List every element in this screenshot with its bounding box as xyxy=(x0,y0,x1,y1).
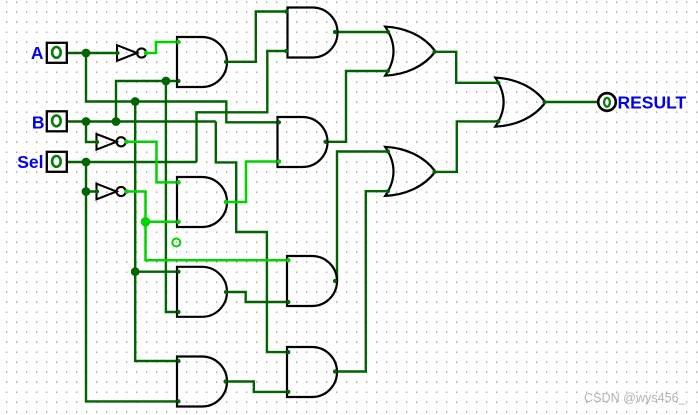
wire net Sel: vertical trunk to AND8 bottom input xyxy=(86,192,177,402)
wire OR3 output to pin RESULT xyxy=(545,101,598,103)
junction node at (86,162) xyxy=(82,158,91,167)
or-gate OR1 xyxy=(385,27,435,76)
and-gate AND2 xyxy=(288,8,338,58)
junction node at (135.2,271.7) xyxy=(131,267,140,276)
wire OR2 output to OR3 bottom input xyxy=(435,121,498,171)
wire net B: stub to NOT2 input xyxy=(86,122,97,143)
wire AND7 output to OR2 top input xyxy=(335,152,389,282)
wire AND2 output to OR1 top input xyxy=(335,31,389,33)
svg-text:CSDN @wys456_: CSDN @wys456_ xyxy=(584,391,687,405)
wire AND4 output to OR1 bottom input xyxy=(326,71,389,142)
wire OR1 output to OR3 top input xyxy=(435,52,498,83)
unconnected wire-end indicator xyxy=(172,239,180,247)
wire net Sel: pin Sel horizontal run xyxy=(67,161,197,163)
junction node at (86,53) xyxy=(82,49,91,58)
inverter U2 (B&#39;) xyxy=(97,134,126,150)
svg-text:A: A xyxy=(31,43,44,63)
svg-text:Sel: Sel xyxy=(17,152,43,172)
wire AND9 output to OR2 bottom input xyxy=(335,191,389,371)
and-gate AND8 xyxy=(177,357,227,407)
wire net B: pin B horizontal run xyxy=(67,120,216,122)
input pin B xyxy=(47,111,67,131)
and-gate AND4 xyxy=(278,117,328,167)
and-gate AND5 xyxy=(177,177,227,227)
wire net /B: NOT2 output to AND5 top input xyxy=(126,142,177,183)
junction node at (165.9,81) xyxy=(162,77,171,86)
input pin Sel xyxy=(47,152,67,172)
wire net B: up to AND1 bottom input xyxy=(116,81,177,122)
input pin A xyxy=(47,43,67,63)
wire net B: staircase to AND9 top input xyxy=(216,122,287,353)
output pin RESULT xyxy=(598,93,616,111)
and-gate AND6 xyxy=(177,267,227,317)
junction node at (86,121.5) xyxy=(82,117,91,126)
junction node at (135.2,101.5) xyxy=(131,97,140,106)
inverter U3 (Sel&#39;) xyxy=(97,184,126,200)
wire AND5 output to AND4 bottom input xyxy=(227,162,278,203)
inverter U1 (A&#39;) xyxy=(117,45,146,61)
wire net A: vertical trunk to AND8 top input xyxy=(135,102,177,362)
or-gate OR2 xyxy=(385,147,435,196)
junction node (bright) at (145.5,221.8) xyxy=(141,217,151,227)
wire net /A: NOT1 output to AND1 top input xyxy=(146,42,177,53)
and-gate AND7 xyxy=(287,256,337,306)
wire net /Sel: NOT3 output to AND7 top input xyxy=(126,192,287,261)
connection port dots (dark nets) xyxy=(64,9,600,403)
or-gate OR3 xyxy=(495,78,545,127)
wire net Sel: up and across to AND2 bottom input xyxy=(197,51,288,162)
wire net B: vertical trunk to AND6 bottom input xyxy=(166,81,177,312)
wire AND8 output to AND9 bottom input xyxy=(226,382,287,392)
and-gate AND1 xyxy=(177,37,227,87)
connection port dots (bright nets) xyxy=(124,40,290,263)
wire net A: branch to AND6 top input xyxy=(135,271,177,273)
wire net /Sel: branch to AND5 bottom input xyxy=(146,221,178,224)
wire AND1 output to AND2 top input xyxy=(227,12,288,62)
wire net A: junction A down and across to AND4 top input xyxy=(86,53,278,122)
wire net A: pin A to NOT1 input xyxy=(67,52,117,54)
junction node at (86,191.5) xyxy=(82,187,91,196)
svg-text:B: B xyxy=(32,112,45,132)
and-gate AND9 xyxy=(287,347,337,397)
svg-text:RESULT: RESULT xyxy=(618,92,687,112)
junction node at (116,121.5) xyxy=(112,117,121,126)
wire AND6 output to AND7 bottom input xyxy=(226,292,287,302)
wire net Sel: stub to NOT3 input xyxy=(86,162,97,192)
